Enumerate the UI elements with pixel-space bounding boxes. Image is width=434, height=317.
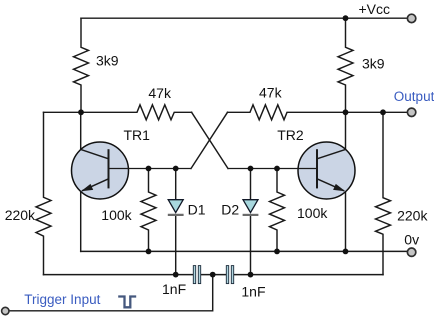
node: right 220k / output junction (380, 109, 386, 115)
svg-text:0v: 0v (404, 232, 419, 248)
wire: TR1 collector-emitter vertical (under transistor) (80, 112, 82, 251)
svg-text:Trigger Input: Trigger Input (24, 292, 100, 307)
transistor TR1 internals: base bar, collector, emitter with arrow, base lead (81, 149, 191, 191)
node: right 3k9 top rail junction (343, 15, 349, 21)
wire: cross diagonal from left 47k to TR2 base (192, 112, 228, 168)
svg-text:3k9: 3k9 (96, 53, 119, 69)
node: D2 / C2 junction on capacitor line (248, 272, 254, 278)
wire: D1 anode lead (175, 169, 177, 200)
capacitor C1 plates (193, 266, 200, 284)
svg-text:47k: 47k (259, 85, 283, 101)
resistor 3k9 (left) with leads (74, 18, 89, 112)
wire: 0v rail (81, 250, 412, 252)
wire: cross diagonal from right 47k to TR1 base (191, 112, 228, 168)
resistor 47k (left) with leads (81, 105, 192, 120)
svg-text:220k: 220k (5, 207, 36, 223)
transistor TR1 body (72, 142, 129, 199)
terminal +Vcc (407, 14, 415, 22)
node: TR2 emitter / 0v rail junction (343, 249, 349, 255)
svg-text:100k: 100k (297, 205, 328, 221)
wire: trigger input drop and line (6, 275, 213, 311)
svg-text:D1: D1 (188, 202, 206, 218)
wire: capacitor line right segment (234, 274, 383, 276)
svg-text:+Vcc: +Vcc (359, 1, 391, 17)
node: TR2 collector / output junction (343, 109, 349, 115)
svg-text:Output: Output (394, 89, 434, 104)
node: TR1 base / D1 junction (173, 166, 179, 172)
diode D1 cathode bar (168, 214, 184, 216)
svg-text:1nF: 1nF (241, 284, 265, 300)
wire: D1 cathode lead down to capacitor line (175, 215, 177, 275)
transistor TR2 internals: base bar, collector, emitter with arrow, base lead (228, 149, 346, 191)
node: D1 / C1 junction on capacitor line (173, 272, 179, 278)
resistor 100k (left) with leads (141, 169, 156, 252)
svg-text:TR2: TR2 (277, 127, 304, 143)
wire: +Vcc top rail (81, 17, 412, 19)
node: TR1 base / 100k junction (146, 166, 152, 172)
node: left 3k9 / 47k junction (78, 109, 84, 115)
resistor 47k (right) with leads (228, 105, 346, 120)
wire: D2 anode lead (250, 169, 252, 200)
diode D2 triangle (243, 200, 258, 213)
wire: junction to left 220k branch (44, 111, 82, 113)
node: TR2 base / D2 junction (248, 166, 254, 172)
resistor 220k (left) with leads (36, 112, 51, 274)
resistor 220k (right) with leads (376, 112, 391, 274)
wire: capacitor line left segment (44, 274, 194, 276)
wire: D2 cathode lead down to capacitor line (250, 215, 252, 275)
resistor 3k9 (right) with leads (338, 18, 353, 112)
node: trigger / C1-C2 junction (210, 272, 216, 278)
diode D1 triangle (168, 200, 183, 213)
wire: output line to terminal (346, 111, 412, 113)
transistor TR2 body (298, 142, 355, 199)
trigger pulse icon (118, 297, 136, 308)
svg-text:3k9: 3k9 (362, 56, 385, 72)
svg-text:TR1: TR1 (124, 127, 151, 143)
diode D2 cathode bar (243, 214, 259, 216)
terminal 0v (407, 248, 415, 256)
wire: TR2 collector-emitter vertical (under transistor) (345, 112, 347, 251)
svg-text:1nF: 1nF (162, 281, 186, 297)
wire: capacitor line middle segment (201, 274, 227, 276)
terminal Trigger Input (2, 307, 9, 314)
resistor 100k (right) with leads (270, 169, 285, 252)
svg-text:100k: 100k (101, 207, 132, 223)
svg-text:47k: 47k (148, 85, 172, 101)
node: left 100k / 0v rail junction (146, 249, 152, 255)
svg-text:220k: 220k (397, 208, 428, 224)
capacitor C2 plates (226, 266, 233, 284)
node: right 100k / 0v rail junction (274, 249, 280, 255)
terminal Output (407, 108, 415, 116)
svg-text:D2: D2 (221, 202, 239, 218)
node: TR2 base / 100k junction (274, 166, 280, 172)
